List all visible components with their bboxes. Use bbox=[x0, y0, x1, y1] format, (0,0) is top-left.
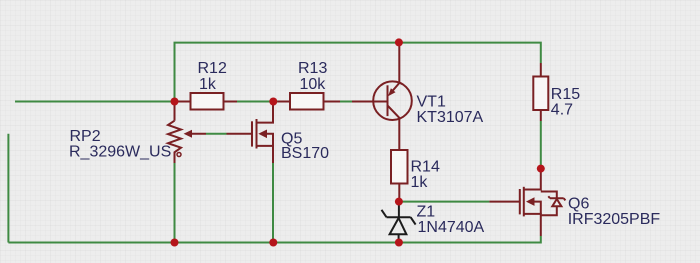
svg-text:1k: 1k bbox=[411, 174, 429, 191]
wire RP2 bottom bbox=[174, 162, 176, 243]
svg-text:IRF3205PBF: IRF3205PBF bbox=[568, 211, 661, 228]
svg-text:Q6: Q6 bbox=[568, 196, 589, 213]
transistor Q5 bbox=[227, 102, 274, 164]
wire Z1 to Q6 gate bbox=[399, 201, 490, 203]
zener diode Z1 bbox=[382, 203, 416, 242]
junction node R15 / Q6 drain bbox=[537, 165, 545, 173]
svg-text:10k: 10k bbox=[300, 76, 327, 93]
wire R12-R13 segment bbox=[237, 101, 278, 103]
junction node R13/Q5 drain bbox=[269, 98, 277, 106]
resistor R14 bbox=[391, 150, 408, 202]
svg-text:R_3296W_US: R_3296W_US bbox=[69, 144, 171, 161]
junction node Q5 source / bottom rail bbox=[269, 239, 277, 247]
transistor Q6 bbox=[489, 169, 565, 236]
svg-text:VT1: VT1 bbox=[417, 94, 446, 111]
wire left feed bbox=[15, 101, 175, 103]
wire left vertical bbox=[7, 134, 9, 243]
junction node Z1 anode / bottom rail bbox=[395, 239, 403, 247]
resistor R12 bbox=[177, 93, 237, 110]
wire R15 bottom to Q6 drain bbox=[540, 121, 542, 169]
label R13 bbox=[298, 60, 327, 93]
label VT1 bbox=[417, 94, 484, 127]
resistor R15 bbox=[533, 63, 548, 121]
svg-text:R14: R14 bbox=[411, 159, 440, 176]
label RP2 bbox=[69, 128, 171, 161]
label R14 bbox=[411, 159, 440, 192]
junction node R14/Z1/Q6 gate bbox=[395, 198, 403, 206]
junction node RP2 bottom / bottom rail bbox=[171, 239, 179, 247]
svg-text:4.7: 4.7 bbox=[551, 101, 573, 118]
label Q6 bbox=[568, 196, 661, 229]
svg-text:R12: R12 bbox=[198, 60, 227, 77]
wire RP2 wiper to Q5 gate bbox=[206, 133, 227, 135]
label Z1 bbox=[417, 203, 485, 236]
label Q5 bbox=[281, 131, 329, 163]
svg-text:BS170: BS170 bbox=[281, 145, 329, 162]
label R15 bbox=[551, 86, 580, 118]
wire top rail bbox=[175, 43, 541, 102]
junction node R12/RP2 bbox=[171, 98, 179, 106]
potentiometer RP2 bbox=[168, 102, 206, 164]
svg-text:KT3107A: KT3107A bbox=[417, 109, 484, 126]
transistor VT1 bbox=[352, 43, 412, 150]
svg-text:1k: 1k bbox=[199, 76, 217, 93]
svg-text:1N4740A: 1N4740A bbox=[418, 219, 485, 236]
svg-text:RP2: RP2 bbox=[70, 128, 101, 145]
wire R13-VT1 segment bbox=[340, 101, 352, 103]
wire bottom rail bbox=[8, 236, 540, 243]
wire Q5 source down bbox=[272, 162, 274, 243]
svg-text:Z1: Z1 bbox=[417, 203, 436, 220]
junction node VT1 emitter / top rail bbox=[395, 38, 403, 46]
svg-text:R13: R13 bbox=[298, 60, 327, 77]
label R12 bbox=[198, 60, 227, 93]
resistor R13 bbox=[278, 93, 341, 110]
